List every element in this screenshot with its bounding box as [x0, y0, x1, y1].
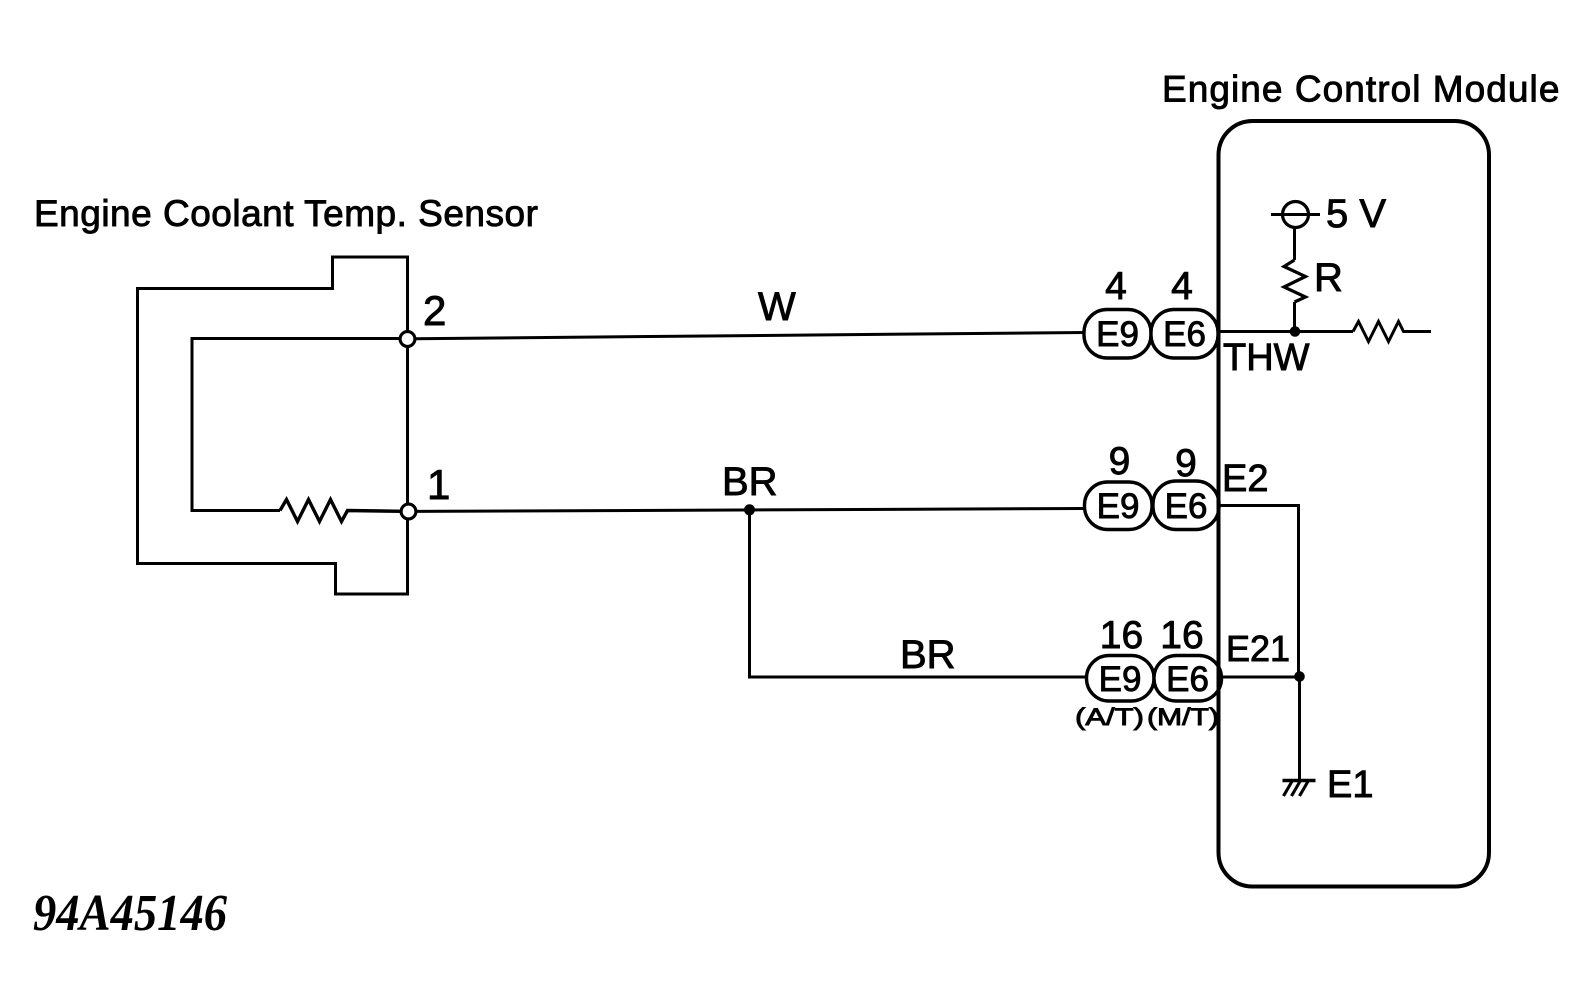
connector E9 pin 4	[1084, 310, 1151, 359]
svg-text:E21: E21	[1226, 628, 1290, 669]
wire BR (terminal 1 to E9)	[416, 509, 1086, 512]
svg-text:Engine Coolant Temp. Sensor: Engine Coolant Temp. Sensor	[34, 193, 538, 234]
svg-text:THW: THW	[1223, 337, 1310, 379]
svg-text:9: 9	[1109, 440, 1131, 483]
resistor R (pull-up)	[1284, 260, 1306, 302]
svg-text:94A45146: 94A45146	[33, 885, 227, 942]
svg-text:16: 16	[1160, 614, 1203, 657]
wire: resistor R to THW node	[1293, 302, 1296, 332]
svg-text:E9: E9	[1097, 487, 1140, 526]
ECM enclosure box	[1219, 121, 1490, 887]
connector E6 pin 9	[1153, 481, 1219, 530]
svg-text:BR: BR	[900, 633, 956, 677]
svg-text:E9: E9	[1099, 660, 1142, 699]
svg-text:E6: E6	[1163, 315, 1206, 354]
svg-text:(M/T): (M/T)	[1147, 704, 1219, 731]
connector E6 pin 16	[1154, 656, 1222, 702]
svg-text:E6: E6	[1165, 487, 1208, 526]
svg-text:Engine Control Module: Engine Control Module	[1162, 69, 1560, 110]
svg-text:1: 1	[427, 461, 450, 508]
wire: 5V to resistor R	[1293, 228, 1296, 261]
wire: THW line inside ECM	[1219, 330, 1354, 333]
junction dot E21/E2	[1294, 671, 1305, 682]
junction dot at THW node	[1290, 326, 1301, 337]
junction on BR wire	[744, 504, 755, 515]
terminal 2 of sensor	[400, 332, 415, 347]
svg-text:2: 2	[423, 287, 446, 334]
power symbol: 5V supply	[1271, 202, 1320, 228]
svg-text:(A/T): (A/T)	[1075, 704, 1144, 731]
resistor on THW line	[1353, 322, 1431, 342]
wire: E21 to ground bus	[1222, 676, 1300, 679]
svg-text:9: 9	[1175, 442, 1197, 485]
sensor ECT outline	[138, 257, 408, 594]
svg-text:5 V: 5 V	[1326, 192, 1386, 236]
svg-text:R: R	[1314, 256, 1343, 300]
connector E6 pin 4	[1151, 310, 1218, 359]
connector E9 pin 16	[1087, 656, 1155, 702]
wire: sensor internal from terminal 2	[192, 339, 401, 511]
wire: junction to ground	[1298, 677, 1301, 780]
svg-text:BR: BR	[722, 460, 778, 504]
svg-text:E1: E1	[1327, 764, 1373, 806]
resistor: thermistor element inside sensor	[280, 500, 402, 522]
ground symbol E1	[1283, 781, 1316, 797]
svg-text:W: W	[758, 285, 796, 329]
connector E9 pin 9	[1085, 482, 1153, 530]
wire: E2 to ground bus	[1219, 506, 1299, 677]
svg-text:16: 16	[1100, 614, 1143, 657]
svg-text:E2: E2	[1222, 458, 1268, 500]
wire: BR branch to E21 connector	[750, 510, 1088, 677]
terminal 1 of sensor	[401, 504, 416, 519]
wire W (terminal 2 to E9)	[415, 333, 1086, 339]
svg-text:E9: E9	[1096, 315, 1139, 354]
svg-text:4: 4	[1105, 265, 1127, 308]
svg-text:4: 4	[1171, 265, 1193, 308]
svg-text:E6: E6	[1166, 660, 1209, 699]
